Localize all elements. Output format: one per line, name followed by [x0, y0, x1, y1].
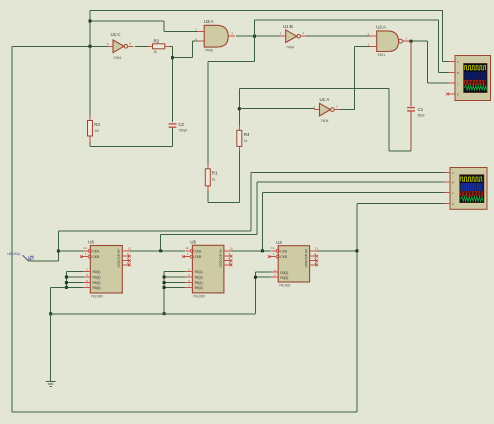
svg-text:R9(1): R9(1) — [195, 281, 203, 285]
svg-text:QA: QA — [218, 249, 222, 253]
svg-text:7401: 7401 — [377, 53, 385, 57]
oscilloscope SCOPE1 — [448, 56, 490, 101]
svg-text:CKB: CKB — [93, 255, 100, 259]
wire riser to scope2 C — [261, 193, 263, 251]
wire net OSC: U1:C input horizontal — [12, 45, 109, 47]
junction at (160.7,250.8) — [159, 249, 162, 252]
svg-text:74LS90: 74LS90 — [91, 295, 103, 299]
svg-text:R0(2): R0(2) — [195, 276, 203, 280]
wire U6 tie down to ground rail — [51, 286, 67, 288]
wire C1 bottom (maroon) — [410, 112, 412, 152]
wire ground stem — [50, 314, 52, 381]
svg-text:U1:B: U1:B — [283, 24, 293, 29]
svg-text:QA: QA — [117, 249, 121, 253]
wire U1:A output to U2:A pin2 — [340, 109, 355, 111]
wire U3:A out up to scope1 B rail — [254, 20, 256, 36]
wire R1 bottom to R4 bottom — [207, 191, 209, 203]
resistor R3 — [88, 115, 101, 141]
svg-text:D: D — [457, 92, 459, 96]
junction at (172.5,57.7) — [171, 56, 174, 59]
svg-text:R2: R2 — [154, 39, 160, 44]
counter IC U6 (74LS90) — [80, 240, 131, 299]
svg-text:QA: QA — [304, 249, 308, 253]
svg-text:CKB: CKB — [195, 255, 202, 259]
svg-text:U6(CKA): U6(CKA) — [7, 252, 20, 256]
wire net CKA: down to probe corner — [57, 231, 59, 261]
svg-text:14: 14 — [271, 246, 275, 250]
oscilloscope SCOPE2 — [443, 168, 487, 210]
svg-text:7404: 7404 — [286, 46, 294, 50]
junction at (50.7,313.8) — [49, 312, 52, 315]
voltage probe U6(CKA) — [7, 252, 33, 261]
wire net CKA: riser to scope2 A — [250, 173, 252, 232]
svg-text:A: A — [452, 171, 454, 175]
wire U6 QA to U5 CKA — [130, 250, 186, 252]
svg-text:QB: QB — [117, 254, 121, 258]
svg-text:R9(2): R9(2) — [195, 286, 203, 290]
wire net OSC: left vertical rail — [11, 46, 13, 412]
svg-text:1k: 1k — [154, 50, 158, 54]
unconnected marker scope1 D — [446, 93, 449, 96]
svg-text:12: 12 — [229, 247, 233, 251]
junction at (90,46.3) — [89, 45, 92, 48]
svg-text:C: C — [457, 81, 459, 85]
capacitor C2 — [169, 122, 188, 133]
wire junction down to C2 top — [172, 58, 174, 123]
wire R3 top — [89, 46, 91, 115]
wire R2 right to junction — [170, 45, 173, 47]
svg-text:B: B — [452, 180, 454, 184]
svg-text:12: 12 — [128, 247, 132, 251]
wire net CKA: probe tail — [29, 260, 59, 262]
svg-text:C1: C1 — [418, 107, 424, 112]
junction at (262.4,250.8) — [261, 249, 264, 252]
ground symbol — [46, 382, 56, 387]
junction at (357,250.8) — [356, 249, 359, 252]
svg-text:U6: U6 — [88, 240, 94, 245]
wire ground rail — [51, 313, 256, 315]
svg-text:1k: 1k — [212, 177, 216, 181]
svg-text:C2: C2 — [178, 122, 184, 127]
svg-text:74LS90: 74LS90 — [193, 295, 205, 299]
wire C1 top (maroon) — [410, 41, 412, 106]
svg-text:12: 12 — [315, 247, 319, 251]
svg-text:R0(2): R0(2) — [280, 276, 288, 280]
svg-text:R9(2): R9(2) — [93, 286, 101, 290]
wire net OSC: top horizontal rail — [90, 10, 443, 12]
svg-text:C: C — [452, 191, 454, 195]
wire U4 reset pin tie — [255, 271, 271, 273]
wire riser to scope2 B — [160, 234, 162, 251]
wire R4 top up and over to C1 bottom — [238, 89, 240, 125]
svg-text:CKA: CKA — [280, 249, 287, 253]
svg-text:R0(1): R0(1) — [280, 271, 288, 275]
wire U6 reset pin tie — [66, 270, 83, 272]
svg-text:11: 11 — [314, 261, 317, 265]
resistor R4 — [237, 125, 250, 152]
svg-text:QB: QB — [218, 254, 222, 258]
wire net OSC: scope2 D horizontal — [357, 203, 444, 205]
wire U2:A output run — [407, 40, 428, 42]
svg-text:14: 14 — [185, 246, 189, 250]
resistor R1 — [205, 164, 218, 192]
junction at (164.1,313.7) — [163, 312, 166, 315]
svg-text:11: 11 — [127, 261, 130, 265]
wire U5 reset pin tie — [164, 270, 185, 272]
svg-text:7404: 7404 — [113, 56, 121, 60]
junction at (254.5,36.2) — [253, 35, 256, 38]
wire U5 QA to U4 CKA — [231, 250, 271, 252]
capacitor C1 — [407, 107, 425, 118]
and gate U3:A — [195, 19, 235, 53]
svg-text:A: A — [457, 60, 459, 64]
wire U2:A out down to scope1 C — [427, 41, 429, 83]
wire net OSC: right vertical up to scope2 D row — [356, 204, 358, 413]
wire net OSC: drop to scope1 A — [442, 11, 444, 62]
svg-text:B: B — [457, 71, 459, 75]
svg-text:R9(1): R9(1) — [93, 281, 101, 285]
svg-text:U4: U4 — [276, 240, 282, 245]
wire U3:A output run — [236, 35, 281, 37]
svg-text:CKB: CKB — [280, 255, 287, 259]
svg-text:11: 11 — [229, 261, 232, 265]
svg-text:U1:C: U1:C — [111, 32, 121, 37]
svg-text:7408: 7408 — [205, 49, 213, 53]
inverter U1:A — [313, 97, 340, 123]
wire tap to U1:A input — [239, 108, 314, 110]
counter IC U4 (74LS92) — [268, 240, 319, 288]
svg-text:CKA: CKA — [93, 249, 100, 253]
svg-text:14: 14 — [83, 246, 87, 250]
svg-text:R0(1): R0(1) — [195, 270, 203, 274]
svg-text:50pF: 50pF — [418, 114, 425, 118]
wire net OSC: bottom horizontal — [12, 411, 357, 413]
wire U1:B output to U2:A pin1 — [306, 35, 371, 37]
wire net OSC: vertical x=90 to top rail — [89, 11, 91, 47]
wire U4 QA to feedback vertical — [317, 250, 357, 252]
wire U3:A out down to R1 chain — [254, 36, 256, 61]
nand gate U2:A — [368, 24, 410, 57]
inverter U1:B — [280, 24, 307, 50]
wire R3 bottom to C2 bottom — [89, 141, 91, 146]
svg-text:1k: 1k — [244, 139, 248, 143]
svg-text:D: D — [452, 202, 454, 206]
svg-text:U1:A: U1:A — [320, 97, 330, 102]
junction at (411,41.2) — [410, 40, 413, 43]
svg-text:7404: 7404 — [321, 119, 329, 123]
wire net CKA: stub to U6 CKA — [58, 250, 83, 252]
svg-text:R0(1): R0(1) — [93, 270, 101, 274]
wire net CKA: long horizontal above counters — [58, 230, 250, 232]
svg-text:QB: QB — [304, 254, 308, 258]
svg-text:U3:A: U3:A — [204, 19, 214, 24]
svg-text:R4: R4 — [244, 132, 250, 137]
svg-text:CKA: CKA — [195, 249, 202, 253]
svg-text:74LS92: 74LS92 — [279, 284, 291, 288]
svg-text:R3: R3 — [94, 122, 100, 127]
junction at (58.4,251) — [57, 250, 60, 253]
resistor R2 — [148, 39, 170, 55]
svg-text:750pF: 750pF — [178, 128, 187, 132]
wire net OSC: branch to U3:A pin1 — [90, 20, 164, 22]
junction at (90,21) — [89, 20, 92, 23]
svg-text:U5: U5 — [190, 240, 196, 245]
svg-text:R0(2): R0(2) — [93, 276, 101, 280]
wire junction to U3:A pin2 — [173, 57, 193, 59]
svg-text:R1: R1 — [212, 170, 218, 175]
counter IC U5 (74LS90) — [182, 240, 233, 299]
junction at (239.3,108.7) — [238, 107, 241, 110]
svg-text:U2:A: U2:A — [376, 24, 386, 29]
wire U1:C out to R2 — [135, 45, 148, 47]
svg-text:1r0: 1r0 — [94, 129, 99, 133]
inverter U1:C — [107, 32, 134, 60]
